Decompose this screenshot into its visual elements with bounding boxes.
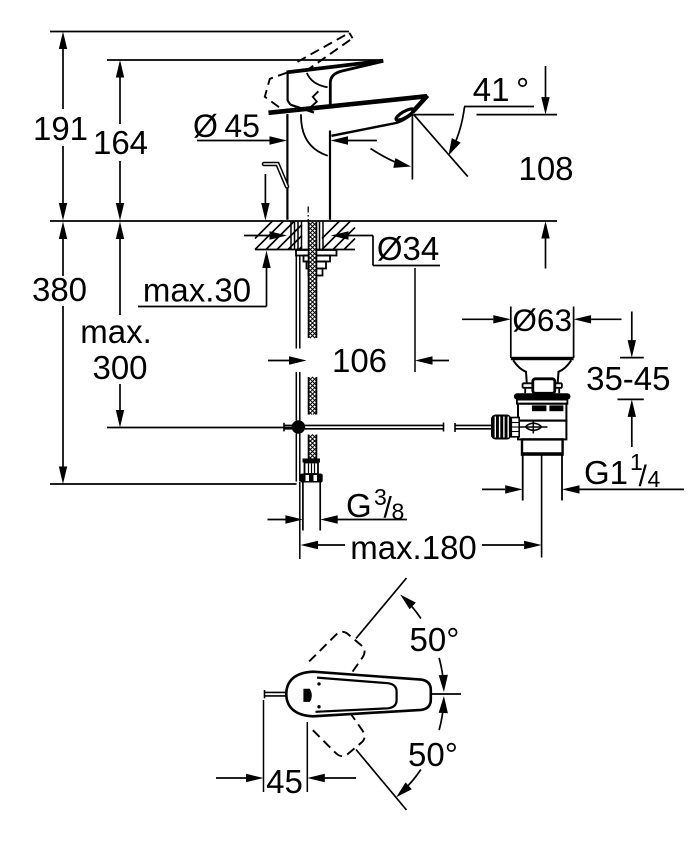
extension line: spout outlet level (108 top) bbox=[414, 114, 557, 116]
drain collar bbox=[521, 439, 563, 454]
41 degree arc left bbox=[371, 149, 412, 168]
41 degree arc right bbox=[449, 107, 465, 156]
handle rotation arc small bbox=[307, 73, 328, 88]
handle plan dots bbox=[317, 682, 320, 708]
faucet body right edge bbox=[329, 131, 331, 220]
handle plan pull rod bbox=[265, 690, 288, 698]
spray direction ray bbox=[414, 115, 468, 177]
svg-text:G1: G1 bbox=[584, 454, 628, 491]
horizontal centerline ray bbox=[432, 693, 461, 695]
faucet spout top edge bbox=[269, 96, 428, 113]
faucet handle body left edge bbox=[288, 73, 291, 105]
pop-up pull rod knob bbox=[264, 164, 287, 187]
svg-text:380: 380 bbox=[32, 271, 87, 308]
extension line: countertop level bbox=[50, 220, 557, 222]
dimension G1 1/4 bbox=[482, 449, 684, 494]
dimension Ø63 bbox=[462, 302, 622, 338]
handle plan logo notch bbox=[303, 689, 311, 702]
dashed handle raised position blade bbox=[298, 33, 353, 72]
dimension G3/8 bbox=[268, 484, 408, 525]
50 degree label lower bbox=[408, 736, 458, 773]
41 degree label bbox=[464, 71, 534, 108]
extension line: handle height (164 top) bbox=[107, 59, 383, 61]
drain plug extension lines bbox=[511, 307, 574, 359]
dimension Ø34 bbox=[244, 230, 440, 372]
mounting step 1 bbox=[304, 256, 331, 262]
braided supply hose bbox=[309, 222, 317, 459]
svg-text:164: 164 bbox=[93, 124, 148, 161]
drain washer bbox=[517, 400, 568, 404]
dashed handle plan rotated down bbox=[309, 700, 370, 762]
mounting flange plate bbox=[296, 250, 337, 256]
svg-text:8: 8 bbox=[392, 499, 405, 525]
extension line max.180 left bbox=[299, 482, 301, 559]
supply hose connector bbox=[303, 459, 321, 475]
drain plug flare left bbox=[513, 360, 527, 383]
drain upper body bbox=[518, 404, 566, 421]
50 degree arc lower bbox=[396, 696, 448, 797]
50 degree arc upper bbox=[400, 595, 448, 693]
drain flange bbox=[514, 393, 570, 399]
faucet aerator bbox=[395, 107, 415, 122]
dimension 45 bbox=[216, 700, 356, 800]
dimension 380 bbox=[32, 222, 87, 485]
svg-text:G: G bbox=[346, 487, 372, 524]
svg-text:4: 4 bbox=[648, 466, 661, 492]
svg-text:max.30: max.30 bbox=[143, 272, 251, 309]
rod clamp block bbox=[511, 418, 519, 437]
dimension max.30 upper arrow bbox=[261, 174, 269, 221]
extension line: pop-up rod level (max300 bottom) bbox=[107, 427, 292, 429]
dimension 108 bbox=[518, 66, 573, 269]
pop-up rod vertical bbox=[296, 256, 300, 482]
faucet handle body bottom edge bbox=[290, 105, 314, 113]
mounting step 3 bbox=[309, 269, 323, 276]
svg-text:max.180: max.180 bbox=[350, 529, 477, 566]
drain plug flare right bbox=[558, 360, 572, 383]
faucet body left edge bbox=[286, 114, 288, 220]
faucet centerline at base bbox=[307, 207, 309, 223]
svg-text:106: 106 bbox=[332, 342, 387, 379]
drain lever pin bbox=[520, 421, 548, 434]
svg-text:50°: 50° bbox=[408, 736, 458, 773]
pop-up rod pivot ball bbox=[292, 420, 306, 434]
50 degree ray lower bbox=[356, 750, 407, 811]
dimension max.300 bbox=[80, 222, 152, 428]
drain centerline bbox=[541, 455, 543, 558]
dashed handle plan rotated up bbox=[309, 626, 370, 688]
faucet handle blade underside and neck bbox=[330, 61, 383, 107]
drain adjuster knob bbox=[533, 379, 555, 394]
50 degree ray upper bbox=[356, 578, 407, 639]
dashed handle raised position body bbox=[265, 73, 287, 111]
drain plug top bbox=[511, 357, 574, 360]
horizontal pop-up rod bbox=[284, 423, 492, 433]
svg-text:max.: max. bbox=[80, 313, 152, 350]
dimension max.30 label bbox=[138, 251, 271, 309]
50 degree label upper bbox=[410, 621, 460, 658]
dimension 164 bbox=[93, 60, 148, 221]
handle rotation arc large bbox=[301, 114, 328, 156]
faucet spout bottom edge bbox=[332, 114, 414, 136]
svg-text:50°: 50° bbox=[410, 621, 460, 658]
svg-text:41 °: 41 ° bbox=[473, 71, 530, 108]
svg-text:45: 45 bbox=[266, 763, 303, 800]
supply pipe G3/8 bbox=[303, 483, 320, 531]
outlet vertical reference bbox=[411, 115, 413, 180]
svg-text:/: / bbox=[639, 460, 648, 493]
extension line: hose end level (380 bottom) bbox=[50, 483, 297, 485]
mounting washer lines in counter bbox=[291, 221, 323, 250]
svg-text:Ø 45: Ø 45 bbox=[193, 108, 260, 144]
countertop cross-section with hatching bbox=[255, 221, 355, 250]
extension line: handle max height (191 top) bbox=[50, 31, 349, 33]
drain mid body bbox=[518, 421, 566, 440]
drain neck bbox=[525, 388, 559, 394]
svg-text:Ø63: Ø63 bbox=[512, 302, 572, 338]
dimension 106 bbox=[268, 342, 449, 379]
faucet handle break zigzag bbox=[310, 91, 319, 112]
handle plan inner contour bbox=[316, 678, 397, 712]
drain ridge bbox=[523, 383, 562, 388]
mounting step 2 bbox=[307, 262, 327, 269]
svg-text:108: 108 bbox=[518, 150, 573, 187]
dimension Ø45 bbox=[193, 108, 377, 145]
svg-text:191: 191 bbox=[33, 110, 88, 147]
faucet handle lever blade bbox=[287, 61, 384, 73]
dimension max.180 bbox=[301, 529, 542, 566]
svg-text:300: 300 bbox=[92, 349, 147, 386]
handle plan view outline bbox=[286, 672, 431, 717]
svg-text:Ø34: Ø34 bbox=[377, 230, 439, 267]
dimension 191 bbox=[33, 32, 88, 221]
svg-text:35-45: 35-45 bbox=[586, 360, 670, 397]
knurled adjusting nut bbox=[491, 415, 511, 440]
drain tailpiece bbox=[523, 455, 562, 501]
supply nut bbox=[300, 474, 322, 483]
dimension 35-45 bbox=[586, 312, 670, 448]
faucet spout tip face bbox=[413, 96, 428, 113]
